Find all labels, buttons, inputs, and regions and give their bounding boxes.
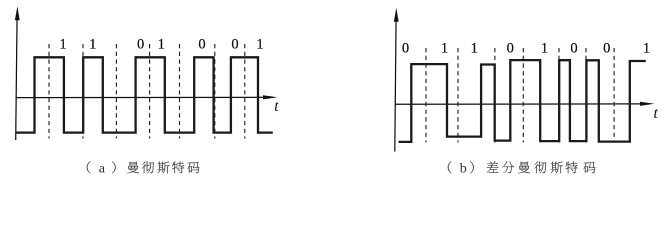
right dashed bit boundary 2 xyxy=(457,48,459,143)
svg-text:1: 1 xyxy=(471,41,478,57)
left dashed bit boundary 6 xyxy=(214,44,216,139)
right dashed bit boundary 3 xyxy=(494,48,496,143)
right dashed bit boundary 6 xyxy=(585,48,587,143)
svg-text:1: 1 xyxy=(256,37,263,53)
svg-text:0: 0 xyxy=(137,37,144,53)
left dashed bit boundary 7 xyxy=(244,44,246,139)
right x-axis xyxy=(395,103,643,105)
right dashed bit boundary 1 xyxy=(425,48,427,143)
svg-text:0: 0 xyxy=(402,41,409,57)
svg-text:1: 1 xyxy=(158,37,165,53)
svg-text:1: 1 xyxy=(441,41,448,57)
svg-text:0: 0 xyxy=(570,41,577,57)
right y-axis arrowhead xyxy=(394,8,399,22)
right x-axis arrowhead xyxy=(640,102,655,106)
right dashed bit boundary 7 xyxy=(613,48,615,143)
left diagram: Manchester code xyxy=(15,6,279,140)
left x-axis xyxy=(16,96,266,98)
svg-text:t: t xyxy=(653,105,658,122)
right y-axis xyxy=(395,15,396,152)
svg-text:1: 1 xyxy=(59,37,66,53)
left dashed bit boundary 4 xyxy=(149,44,151,139)
svg-text:0: 0 xyxy=(603,41,610,57)
svg-text:1: 1 xyxy=(89,37,96,53)
left dashed bit boundary 5 xyxy=(179,44,181,139)
svg-text:0: 0 xyxy=(507,41,514,57)
right dashed bit boundary 5 xyxy=(558,48,560,143)
left dashed bit boundary 2 xyxy=(82,44,84,139)
svg-text:t: t xyxy=(274,98,279,115)
left y-axis xyxy=(16,14,17,140)
svg-text:1: 1 xyxy=(643,41,650,57)
right diagram: differential Manchester code xyxy=(394,8,659,152)
caption (a) Manchester code xyxy=(87,161,200,176)
left y-axis arrowhead xyxy=(15,6,20,20)
svg-text:a: a xyxy=(99,161,106,176)
svg-text:0: 0 xyxy=(231,37,238,53)
left x-axis arrowhead xyxy=(263,95,278,99)
svg-text:1: 1 xyxy=(541,41,548,57)
svg-text:0: 0 xyxy=(198,37,205,53)
left dashed bit boundary 1 xyxy=(48,44,50,139)
caption (b) differential Manchester code xyxy=(448,161,596,176)
svg-text:b: b xyxy=(460,161,467,176)
left dashed bit boundary 3 xyxy=(115,44,117,139)
right differential Manchester waveform xyxy=(399,60,646,142)
left Manchester waveform xyxy=(16,57,273,132)
right dashed bit boundary 4 xyxy=(522,48,524,143)
